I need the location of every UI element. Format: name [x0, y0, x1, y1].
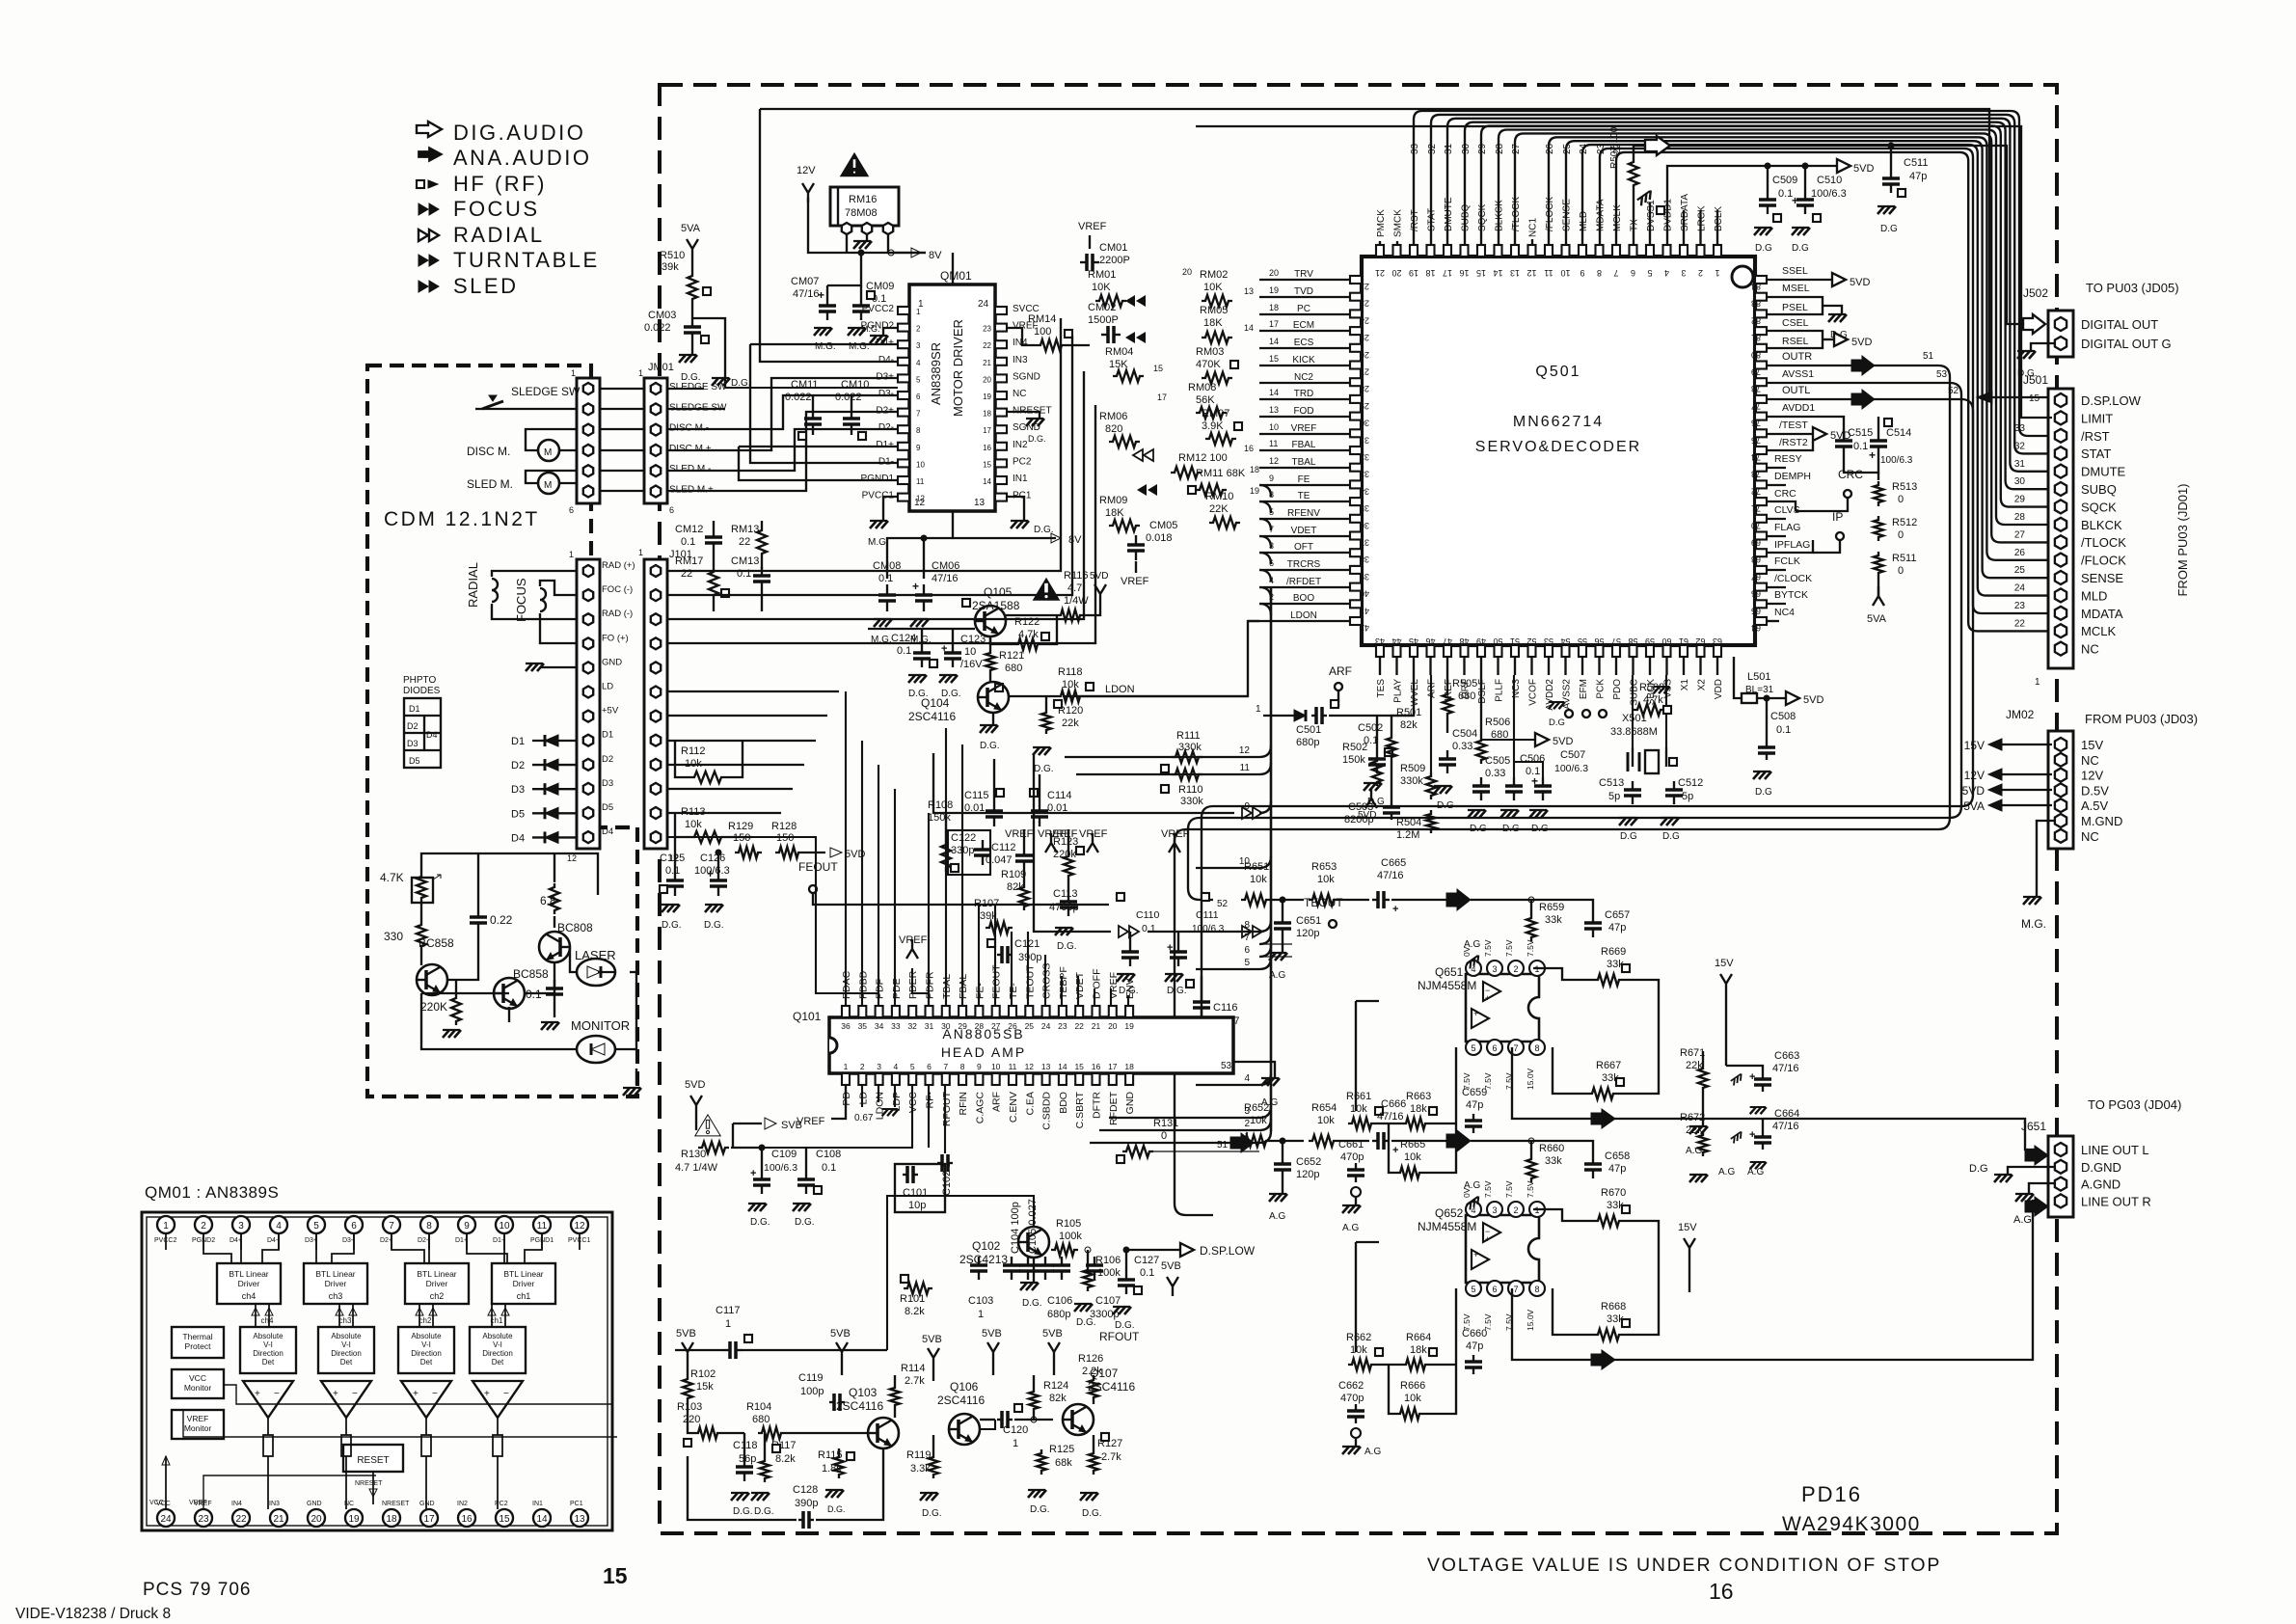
wire QM01 SVCC to 8V rail [808, 198, 953, 284]
connector JM01 board-side column [638, 362, 674, 515]
svg-text:R106: R106 [1095, 1255, 1121, 1266]
svg-text:ECM: ECM [1293, 320, 1314, 331]
svg-text:24: 24 [2014, 583, 2026, 594]
connector J502 [2023, 281, 2179, 357]
terminal ARF [1329, 664, 1352, 707]
svg-text:SMCK: SMCK [1393, 209, 1404, 237]
resistor R114 2.7k [890, 1363, 925, 1418]
svg-text:Q106: Q106 [950, 1380, 979, 1394]
svg-text:RFENV: RFENV [1287, 508, 1320, 519]
svg-text:A.G: A.G [1747, 1167, 1764, 1177]
capacitor C115 0.01 [964, 759, 1034, 840]
svg-text:5VA: 5VA [681, 223, 701, 234]
resistor RM17 22 [675, 552, 729, 611]
svg-text:7: 7 [1513, 1285, 1518, 1294]
op-amp U-Q652 NJM4558M [1418, 1180, 1545, 1331]
head amp bottom pins [842, 1062, 1134, 1085]
svg-text:RM11 68K: RM11 68K [1196, 468, 1246, 479]
capacitor C510 100/6.3 [1792, 163, 1847, 254]
svg-text:D.G: D.G [1662, 831, 1680, 842]
svg-text:RM12 100: RM12 100 [1178, 452, 1228, 464]
svg-text:FO (+): FO (+) [602, 633, 629, 643]
svg-text:QM01 : AN8389S: QM01 : AN8389S [145, 1183, 279, 1202]
capacitor C109 100/6.3 [748, 1145, 797, 1228]
svg-text:2: 2 [1698, 268, 1703, 278]
svg-text:1: 1 [638, 368, 643, 378]
svg-text:6: 6 [927, 1062, 932, 1071]
svg-text:3: 3 [1492, 964, 1497, 974]
svg-text:A.G: A.G [1269, 970, 1285, 981]
svg-text:0.67: 0.67 [854, 1113, 874, 1123]
resistor R667 33k [1553, 1047, 1659, 1099]
svg-text:D.G.: D.G. [733, 1506, 753, 1517]
svg-text:R507 100: R507 100 [1609, 126, 1620, 169]
svg-text:D4: D4 [511, 832, 525, 844]
svg-text:470K: 470K [1196, 359, 1221, 370]
svg-text:CDM 12.1N2T: CDM 12.1N2T [384, 508, 540, 530]
svg-text:10k: 10k [1350, 1103, 1367, 1115]
svg-text:680: 680 [1458, 690, 1475, 702]
svg-text:26: 26 [1360, 350, 1369, 360]
resistor RM06 820 [1099, 411, 1140, 447]
svg-text:BLKCK: BLKCK [2081, 518, 2122, 532]
ground A.G above Q652 [1464, 1180, 1482, 1209]
svg-text:D3: D3 [407, 739, 419, 748]
svg-text:680: 680 [1005, 663, 1022, 674]
svg-text:TEBPF: TEBPF [1058, 966, 1069, 999]
motor DISC M. [467, 429, 577, 461]
svg-text:CM11: CM11 [791, 379, 819, 391]
svg-text:DISC M.+: DISC M.+ [669, 444, 712, 454]
svg-text:42: 42 [1360, 623, 1369, 633]
svg-text:LIMIT: LIMIT [2081, 411, 2113, 425]
svg-text:23: 23 [983, 325, 991, 334]
wire rows left of trunk to head amp area [933, 730, 1292, 1152]
svg-text:A.G: A.G [1364, 1447, 1381, 1457]
svg-text:R513: R513 [1892, 481, 1917, 493]
ground QM01 PGND2 [861, 324, 898, 343]
svg-text:Direction: Direction [253, 1349, 284, 1358]
svg-text:1: 1 [844, 1062, 849, 1071]
svg-text:27: 27 [991, 1021, 1001, 1031]
svg-text:+: + [333, 1389, 338, 1399]
capacitor CM03 0.022 [644, 310, 709, 383]
svg-text:100p: 100p [800, 1386, 824, 1397]
svg-text:1: 1 [916, 308, 921, 316]
svg-text:D3: D3 [511, 784, 525, 796]
svg-text:24: 24 [1360, 315, 1369, 325]
svg-text:BLKCK: BLKCK [1495, 200, 1505, 231]
svg-text:OUTL: OUTL [1782, 385, 1810, 396]
svg-text:20: 20 [1108, 1021, 1118, 1031]
svg-text:22: 22 [681, 568, 692, 580]
svg-text:A.G: A.G [1342, 1223, 1359, 1233]
svg-text:34: 34 [875, 1021, 884, 1031]
svg-text:66: 66 [1751, 589, 1761, 599]
capacitor C114 0.01 [1030, 774, 1078, 840]
svg-text:0.1: 0.1 [1140, 1267, 1154, 1279]
svg-text:C503: C503 [1348, 801, 1373, 813]
svg-text:R651: R651 [1244, 861, 1269, 873]
svg-text:0.1: 0.1 [1853, 441, 1868, 452]
CDM 12.1N2T module dashed outline [367, 365, 637, 1096]
svg-text:36: 36 [841, 1021, 851, 1031]
svg-text:CM03: CM03 [648, 310, 676, 321]
svg-text:Absolute: Absolute [253, 1332, 284, 1340]
svg-text:C502: C502 [1358, 722, 1383, 734]
svg-text:FROM PU03 (JD01): FROM PU03 (JD01) [2175, 483, 2190, 596]
capacitor C652 120p [1269, 1138, 1321, 1222]
capacitor C513 5p [1599, 777, 1641, 842]
svg-text:LASER: LASER [575, 948, 616, 962]
svg-text:25: 25 [1025, 1021, 1035, 1031]
resistor R669 33k [1533, 946, 1659, 1051]
svg-text:M.GND: M.GND [2081, 814, 2122, 828]
svg-text:9: 9 [916, 444, 921, 452]
svg-text:DEMPH: DEMPH [1774, 471, 1811, 482]
svg-text:11: 11 [1269, 439, 1278, 448]
svg-text:+: + [941, 643, 947, 655]
svg-text:V-I: V-I [493, 1340, 502, 1349]
resistor R118 10k [1057, 666, 1135, 702]
svg-text:13: 13 [1041, 1062, 1051, 1071]
svg-text:55: 55 [1578, 636, 1587, 646]
svg-text:CM10: CM10 [841, 379, 869, 391]
svg-text:CM01: CM01 [1099, 242, 1127, 254]
svg-text:C126: C126 [700, 853, 725, 864]
svg-text:C112: C112 [991, 842, 1015, 853]
svg-text:1: 1 [1013, 1438, 1018, 1449]
svg-text:53: 53 [1544, 636, 1553, 646]
svg-text:BTL Linear: BTL Linear [417, 1269, 456, 1279]
svg-text:+: + [1392, 1145, 1398, 1156]
svg-text:1: 1 [1715, 268, 1719, 278]
svg-text:+: + [1749, 1071, 1755, 1083]
svg-text:19: 19 [1409, 268, 1418, 278]
svg-text:47/16: 47/16 [1772, 1121, 1799, 1132]
svg-text:10: 10 [991, 1062, 1001, 1071]
svg-text:47p: 47p [1608, 922, 1626, 934]
trimmer 4.7K [380, 871, 441, 903]
Q501 right pins [1751, 276, 1767, 633]
svg-text:VREF: VREF [189, 1500, 207, 1506]
svg-text:ch4: ch4 [261, 1316, 274, 1325]
capacitor CM06 47/16 [910, 535, 959, 645]
wire SSEL to 5VD [1767, 265, 1870, 288]
svg-text:BTL Linear: BTL Linear [229, 1269, 268, 1279]
svg-text:12: 12 [1025, 1062, 1035, 1071]
capacitor C101 10p with R101 [895, 1085, 945, 1317]
svg-text:C663: C663 [1774, 1050, 1799, 1062]
svg-text:5VB: 5VB [676, 1328, 696, 1340]
svg-text:D.G.: D.G. [795, 1217, 815, 1228]
QM01 left pins and labels [861, 304, 926, 503]
svg-text:47: 47 [1443, 636, 1452, 646]
svg-text:15.0V: 15.0V [1526, 1068, 1535, 1090]
svg-text:NJM4558M: NJM4558M [1418, 1220, 1476, 1233]
svg-text:D.G.: D.G. [1030, 1504, 1050, 1515]
svg-text:56p: 56p [739, 1453, 756, 1465]
svg-text:M: M [544, 447, 552, 458]
page border frame (main dashed board outline PD16) [660, 85, 2057, 1533]
svg-text:R666: R666 [1400, 1380, 1425, 1392]
svg-text:DMUTE: DMUTE [2081, 465, 2126, 479]
capacitor C506 0.1 [1500, 675, 1545, 834]
svg-text:NC: NC [2081, 753, 2099, 768]
svg-text:18K: 18K [1203, 317, 1223, 329]
svg-text:44: 44 [1391, 636, 1401, 646]
svg-text:18: 18 [1425, 268, 1435, 278]
svg-text:7: 7 [1513, 1043, 1518, 1053]
svg-text:RM09: RM09 [1099, 495, 1127, 506]
svg-text:C108: C108 [816, 1149, 841, 1160]
svg-text:C119: C119 [798, 1372, 823, 1384]
wire QM01 NRESET ground [1007, 412, 1046, 444]
svg-text:/CLOCK: /CLOCK [1774, 573, 1812, 584]
svg-text:Driver: Driver [426, 1279, 448, 1288]
svg-text:SLED M.-: SLED M.- [669, 464, 711, 474]
wire TBAL FBAL columns [946, 728, 1128, 1006]
capacitor CM08 0.1 [871, 538, 953, 645]
wire DIGITAL OUT route [1670, 146, 2023, 324]
svg-text:LDON: LDON [1105, 684, 1135, 695]
svg-text:PCK: PCK [1596, 679, 1607, 699]
svg-text:D2: D2 [511, 760, 525, 771]
power 15V audio L [1715, 958, 1734, 1066]
svg-text:0.1: 0.1 [822, 1162, 836, 1174]
svg-text:7.5V: 7.5V [1526, 939, 1535, 957]
svg-text:D.5V: D.5V [2081, 783, 2109, 798]
feedback network R662 R664 C660 [1346, 1242, 1487, 1374]
svg-text:Absolute: Absolute [331, 1332, 362, 1340]
svg-text:21: 21 [1092, 1021, 1101, 1031]
svg-text:390p: 390p [795, 1498, 818, 1509]
svg-text:C658: C658 [1605, 1150, 1630, 1162]
svg-text:R510: R510 [660, 250, 685, 261]
svg-text:15k: 15k [696, 1381, 714, 1393]
svg-text:51: 51 [1217, 1140, 1229, 1150]
svg-text:C513: C513 [1599, 777, 1624, 789]
svg-text:10p: 10p [908, 1200, 926, 1211]
svg-text:VCC: VCC [149, 1500, 164, 1506]
svg-text:21: 21 [1375, 268, 1385, 278]
svg-text:33k: 33k [1545, 914, 1562, 926]
svg-text:PGND1: PGND1 [861, 474, 895, 484]
svg-text:/FLOCK: /FLOCK [1545, 197, 1555, 231]
svg-text:Protect: Protect [185, 1341, 212, 1351]
svg-text:MOTOR DRIVER: MOTOR DRIVER [951, 319, 965, 417]
wire top rail LIMIT [1196, 126, 2021, 318]
ground JM02 M.GND [2021, 821, 2054, 931]
svg-text:C506: C506 [1520, 753, 1545, 765]
svg-text:NRESET: NRESET [382, 1501, 410, 1507]
svg-text:NC1: NC1 [1528, 218, 1539, 237]
svg-text:16: 16 [1709, 1579, 1734, 1604]
svg-text:D1+: D1+ [455, 1237, 468, 1244]
resistor R125 68k [1028, 1420, 1074, 1515]
svg-text:14: 14 [1269, 337, 1279, 346]
svg-text:31: 31 [1360, 435, 1369, 445]
svg-text:R110: R110 [1178, 784, 1202, 796]
svg-text:12V: 12V [2081, 769, 2103, 783]
wire LIMIT row [2021, 318, 2052, 418]
resistor RM04 15K [1105, 346, 1163, 382]
J651 input arrows [2025, 1146, 2048, 1216]
svg-text:D.G.: D.G. [1022, 1298, 1042, 1309]
svg-text:11: 11 [1544, 268, 1553, 278]
svg-text:17: 17 [983, 426, 991, 435]
svg-text:D OFF: D OFF [1092, 969, 1103, 1000]
svg-text:0.1: 0.1 [878, 573, 893, 584]
svg-text:31: 31 [1444, 143, 1454, 154]
svg-text:+: + [255, 1389, 260, 1399]
svg-text:VDD: VDD [1714, 679, 1724, 699]
svg-text:Driver: Driver [513, 1279, 535, 1288]
svg-text:R654: R654 [1311, 1102, 1337, 1114]
svg-text:82k: 82k [1400, 719, 1418, 731]
connector J651 [2021, 1097, 2181, 1217]
svg-text:20: 20 [1269, 268, 1279, 278]
transistor Q104 2SC4116 [908, 682, 1009, 723]
inductor L501 BL=31 [1734, 657, 1823, 706]
svg-text:38: 38 [1360, 555, 1369, 564]
svg-text:Q104: Q104 [921, 696, 950, 710]
svg-text:5VD: 5VD [1830, 430, 1850, 442]
ground J502 G pin [2017, 343, 2054, 379]
resistor R659 33k [1526, 897, 1564, 941]
svg-text:VREF: VREF [1121, 576, 1149, 587]
svg-text:64: 64 [1751, 623, 1761, 633]
svg-text:C127: C127 [1134, 1255, 1159, 1266]
svg-text:19: 19 [983, 392, 991, 401]
svg-text:+: + [1473, 1250, 1478, 1259]
svg-text:NC: NC [2081, 642, 2099, 657]
svg-text:RM08: RM08 [1188, 382, 1216, 393]
svg-text:25: 25 [1562, 143, 1573, 154]
svg-text:10k: 10k [685, 819, 702, 830]
svg-text:Direction: Direction [331, 1349, 362, 1358]
svg-text:C110: C110 [1136, 909, 1159, 921]
svg-text:5: 5 [1647, 268, 1652, 278]
resistor R670 33k [1533, 1187, 1659, 1292]
svg-text:77: 77 [1751, 401, 1761, 411]
svg-text:IN3: IN3 [269, 1501, 280, 1507]
svg-text:28: 28 [2014, 512, 2026, 523]
svg-text:72: 72 [1751, 486, 1761, 496]
svg-text:3: 3 [238, 1221, 244, 1232]
svg-text:C.SBDD: C.SBDD [1041, 1092, 1053, 1130]
svg-text:10: 10 [916, 460, 925, 469]
svg-text:AVSS1: AVSS1 [1782, 368, 1814, 380]
svg-text:2200P: 2200P [1099, 255, 1130, 266]
svg-text:65: 65 [1751, 606, 1761, 615]
RESET block [343, 1445, 403, 1472]
head amp bottom pin labels rotated [841, 1091, 1136, 1129]
svg-text:+: + [1869, 448, 1876, 462]
svg-text:+: + [484, 1389, 490, 1399]
svg-text:TEOUT: TEOUT [1024, 964, 1036, 999]
svg-text:C109: C109 [771, 1149, 797, 1160]
svg-text:Direction: Direction [482, 1349, 513, 1358]
svg-text:NC4: NC4 [1774, 607, 1795, 618]
power label 12V [797, 165, 816, 203]
svg-text:+5V: +5V [602, 706, 619, 717]
svg-text:A.GND: A.GND [2081, 1177, 2120, 1192]
svg-text:78: 78 [1751, 384, 1761, 393]
svg-text:LRCK: LRCK [1697, 205, 1708, 231]
svg-text:PD16: PD16 [1801, 1482, 1862, 1506]
svg-text:GND: GND [1124, 1092, 1136, 1115]
svg-text:STAT: STAT [1427, 208, 1438, 231]
svg-text:20: 20 [1182, 267, 1192, 277]
svg-text:73: 73 [1751, 470, 1761, 479]
svg-text:RM06: RM06 [1099, 411, 1127, 422]
svg-text:D.G.: D.G. [1167, 986, 1187, 996]
svg-text:330k: 330k [1180, 796, 1203, 807]
svg-text:ENV: ENV [1124, 978, 1136, 999]
svg-text:D.G.: D.G. [754, 1506, 774, 1517]
wire VCC pin to SVB [731, 1085, 912, 1148]
svg-text:D4-: D4- [878, 355, 894, 365]
svg-text:FE-: FE- [974, 983, 986, 999]
wire opamp R output to line out R [1512, 1201, 2039, 1369]
svg-text:LINE OUT R: LINE OUT R [2081, 1194, 2151, 1208]
svg-text:D4-: D4- [267, 1237, 279, 1244]
svg-text:R652: R652 [1244, 1102, 1269, 1114]
svg-text:D1: D1 [511, 736, 525, 747]
svg-text:24: 24 [160, 1514, 172, 1525]
capacitor CM13 0.1 [731, 555, 770, 611]
svg-text:TES: TES [1376, 679, 1387, 698]
svg-text:20: 20 [983, 375, 991, 384]
svg-text:40: 40 [1360, 589, 1369, 599]
svg-text:15V: 15V [1715, 958, 1734, 969]
svg-text:220: 220 [683, 1414, 700, 1425]
capacitor C125 0.1 [660, 837, 685, 931]
svg-text:RM16: RM16 [849, 194, 877, 205]
svg-text:23: 23 [1058, 1021, 1067, 1031]
svg-text:IN1: IN1 [532, 1501, 543, 1507]
grounds J651 D.GND A.GND [1969, 1163, 2054, 1226]
svg-text:1.2M: 1.2M [1396, 829, 1419, 841]
wire OUTL with ana arrow [1767, 385, 1961, 409]
svg-text:15: 15 [603, 1563, 628, 1588]
svg-text:EFM: EFM [1579, 679, 1589, 699]
svg-text:RFOUT: RFOUT [1099, 1330, 1140, 1343]
svg-text:A.G: A.G [1464, 939, 1480, 950]
svg-text:TO PU03 (JD05): TO PU03 (JD05) [2086, 281, 2179, 295]
svg-text:R512: R512 [1892, 517, 1917, 528]
svg-text:C510: C510 [1817, 175, 1842, 186]
svg-text:C657: C657 [1605, 909, 1630, 921]
svg-text:R664: R664 [1406, 1332, 1431, 1343]
svg-text:22k: 22k [1686, 1124, 1703, 1136]
svg-text:0.33: 0.33 [1452, 741, 1472, 752]
svg-text:8: 8 [1534, 1285, 1539, 1294]
resistor R103 220 [677, 1401, 744, 1447]
svg-text:VREF: VREF [187, 1414, 209, 1423]
wire numbered trunk bus right of head amp [1239, 485, 1271, 1143]
svg-text:80: 80 [1751, 350, 1761, 360]
svg-text:78M08: 78M08 [845, 207, 878, 219]
resistor RM02 10K [1182, 267, 1254, 307]
svg-text:Det: Det [262, 1358, 275, 1367]
capacitor 0.1 laser [526, 980, 563, 1003]
svg-text:C509: C509 [1772, 175, 1797, 186]
svg-text:C113: C113 [1053, 888, 1077, 900]
svg-text:NC3: NC3 [1511, 679, 1522, 698]
svg-text:15.0V: 15.0V [1526, 1309, 1535, 1331]
